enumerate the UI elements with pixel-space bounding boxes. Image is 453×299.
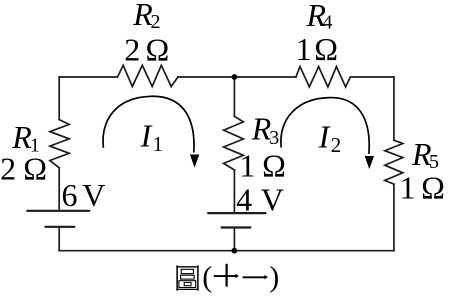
svg-text:V: V xyxy=(261,182,284,218)
svg-text:1: 1 xyxy=(153,132,164,156)
svg-text:2: 2 xyxy=(151,11,161,33)
svg-text:(: ( xyxy=(202,261,212,294)
svg-text:Ω: Ω xyxy=(421,170,445,206)
svg-text:I: I xyxy=(140,117,153,153)
svg-text:I: I xyxy=(318,118,331,154)
svg-text:2: 2 xyxy=(331,133,342,157)
svg-text:2: 2 xyxy=(124,31,140,67)
svg-text:Ω: Ω xyxy=(314,31,338,67)
svg-text:Ω: Ω xyxy=(146,31,170,67)
svg-text:V: V xyxy=(82,177,105,213)
svg-text:): ) xyxy=(269,261,279,294)
svg-text:6: 6 xyxy=(62,177,78,213)
svg-text:3: 3 xyxy=(269,127,279,149)
svg-text:2: 2 xyxy=(0,151,16,187)
svg-text:1: 1 xyxy=(400,170,416,206)
svg-text:1: 1 xyxy=(296,31,312,67)
svg-text:4: 4 xyxy=(236,182,252,218)
svg-text:Ω: Ω xyxy=(23,151,47,187)
svg-text:Ω: Ω xyxy=(262,147,286,183)
svg-text:1: 1 xyxy=(239,147,255,183)
